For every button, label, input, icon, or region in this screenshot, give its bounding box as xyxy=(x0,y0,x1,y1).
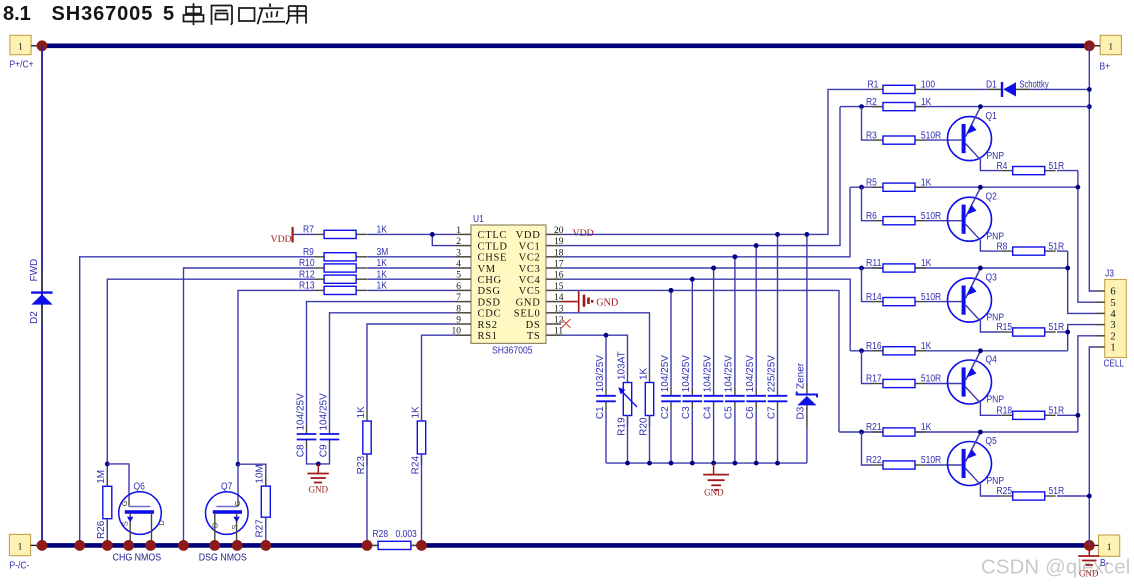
wire node to R26 xyxy=(106,464,108,486)
svg-text:104/25V: 104/25V xyxy=(295,393,306,431)
wire top bus P+/C+ to B+ xyxy=(42,43,1089,48)
svg-text:S: S xyxy=(230,524,239,529)
resistor R11 1K xyxy=(872,267,883,269)
svg-text:C5: C5 xyxy=(724,406,735,419)
IC U1 SH367005 body xyxy=(471,225,546,343)
svg-text:Q6: Q6 xyxy=(134,481,146,492)
svg-text:Zener: Zener xyxy=(795,362,806,389)
resistor R26 1M xyxy=(106,475,108,486)
svg-text:103AT: 103AT xyxy=(616,351,627,380)
capacitor C9 104/25V xyxy=(329,425,331,434)
svg-text:2: 2 xyxy=(456,237,461,247)
wire C5 to VC row xyxy=(734,257,736,387)
wire RS1 pin10 to R24 xyxy=(422,335,457,410)
node VC1 C6 junction xyxy=(754,243,759,248)
diode D1 Schottky xyxy=(988,88,1002,90)
wire R17 drop xyxy=(862,351,873,384)
node C8 C9 gnd junction xyxy=(316,462,321,467)
wire RS2 pin9 to R23 xyxy=(367,324,456,410)
wire emitter feed row Q4 xyxy=(850,350,1067,352)
svg-text:Q7: Q7 xyxy=(221,481,232,492)
connector J3 body xyxy=(1105,280,1127,358)
pin 9 RS2 xyxy=(456,323,471,325)
wire TS to C1 R19 xyxy=(561,335,628,371)
svg-text:1K: 1K xyxy=(921,177,932,188)
node tap5 R5 row junction xyxy=(1076,185,1081,190)
svg-text:R25: R25 xyxy=(997,486,1013,497)
wire CHSE R9 to bottom bus xyxy=(80,257,313,546)
svg-text:104/25V: 104/25V xyxy=(681,355,692,393)
pin 5 CHG xyxy=(456,278,471,280)
wire R10 to pin4 xyxy=(367,267,456,269)
node R3 tap junction xyxy=(859,104,864,109)
resistor R24 1K xyxy=(421,410,423,421)
transistor Q3 PNP xyxy=(948,278,992,322)
node B+ rail D1 junction xyxy=(1087,87,1092,92)
resistor R1 100 xyxy=(872,88,883,90)
pin J3-2 xyxy=(1095,335,1105,337)
svg-text:C2: C2 xyxy=(660,406,671,419)
svg-text:C3: C3 xyxy=(681,406,692,419)
svg-text:VC1: VC1 xyxy=(519,241,541,252)
resistor R2 1K xyxy=(872,106,883,108)
wire tap5 R4 to J3 pin5 xyxy=(1078,171,1095,303)
wire R23 to bus xyxy=(366,454,368,545)
svg-text:R26: R26 xyxy=(96,520,107,539)
diode D2 FWD xyxy=(41,270,43,293)
svg-text:1K: 1K xyxy=(921,422,932,433)
wire R14 to base xyxy=(926,301,962,303)
svg-text:104/25V: 104/25V xyxy=(724,355,735,393)
wire C7 to VC row xyxy=(777,234,779,386)
svg-text:TS: TS xyxy=(527,331,541,342)
wire R27 to bus xyxy=(265,517,267,545)
svg-text:R20: R20 xyxy=(638,417,649,436)
wire R8 output xyxy=(1057,250,1068,252)
pin 18 VC2 xyxy=(546,256,561,258)
svg-text:P-/C-: P-/C- xyxy=(10,561,30,572)
svg-text:R4: R4 xyxy=(997,161,1008,172)
svg-text:C9: C9 xyxy=(318,444,329,457)
terminal P+/C+ box xyxy=(10,35,31,54)
node C5 row junction xyxy=(733,254,738,259)
svg-text:CHG NMOS: CHG NMOS xyxy=(113,552,162,563)
wire tap3 R15 to J3 pin3 and R16 row xyxy=(1068,325,1095,351)
svg-text:S: S xyxy=(121,521,130,526)
ground GND below rail xyxy=(713,463,715,474)
no-connect X on pin 12 DS xyxy=(562,319,571,328)
svg-text:R3: R3 xyxy=(866,130,877,141)
svg-text:3: 3 xyxy=(456,248,461,258)
pin 7 DSD xyxy=(456,301,471,303)
resistor R7 1K xyxy=(313,233,324,235)
svg-text:R1: R1 xyxy=(868,80,879,91)
node R22 tap junction xyxy=(859,430,864,435)
svg-text:104/25V: 104/25V xyxy=(702,355,713,393)
wire Q3 collector to R15 xyxy=(966,305,1002,332)
svg-text:1: 1 xyxy=(18,543,23,553)
node VDD row D3 junction xyxy=(805,232,810,237)
pin 13 SEL0 xyxy=(546,312,561,314)
resistor R3 510R xyxy=(872,139,883,141)
svg-text:R6: R6 xyxy=(866,211,877,222)
svg-text:SH367005: SH367005 xyxy=(492,346,533,357)
svg-text:DSD: DSD xyxy=(478,297,501,308)
wire VDD row to R1 xyxy=(561,89,872,234)
node R14 tap junction xyxy=(859,266,864,271)
svg-text:C6: C6 xyxy=(745,406,756,419)
svg-text:VDD: VDD xyxy=(271,234,292,245)
svg-text:VC4: VC4 xyxy=(519,275,541,286)
node C6 row junction xyxy=(754,243,759,248)
wire C3 to VC row xyxy=(691,279,693,387)
svg-text:4: 4 xyxy=(1110,309,1116,320)
pin 19 VC1 xyxy=(546,245,561,247)
svg-text:5: 5 xyxy=(1110,298,1115,309)
svg-text:1M: 1M xyxy=(96,470,107,484)
capacitor C1 103/25V xyxy=(605,387,607,396)
svg-text:RS2: RS2 xyxy=(478,320,498,331)
transistor Q2 PNP xyxy=(948,197,992,241)
svg-text:1K: 1K xyxy=(921,258,932,269)
wire VC1 row to block1 feed xyxy=(561,107,840,246)
wire R13 to pin6 xyxy=(367,289,456,291)
svg-text:D: D xyxy=(211,522,220,528)
wire R7 to pin1 xyxy=(367,233,456,235)
pin 14 GND xyxy=(546,301,561,303)
svg-text:C8: C8 xyxy=(295,444,306,457)
wire R3 to base xyxy=(926,139,962,141)
svg-text:Q3: Q3 xyxy=(986,273,998,284)
pin J3-1 xyxy=(1095,346,1105,348)
wire emitter feed row Q5 xyxy=(839,431,1078,433)
node R17 tap junction xyxy=(859,348,864,353)
terminal P-/C- box xyxy=(9,534,30,555)
wire gate node to R27 xyxy=(238,464,266,486)
resistor R9 3M xyxy=(313,256,324,258)
pin J3-6 xyxy=(1095,290,1105,292)
svg-text:R17: R17 xyxy=(866,374,882,385)
resistor R15 51R xyxy=(1002,331,1013,333)
node tap3 R15 junction xyxy=(1065,330,1070,335)
wire VC2 row to block2 feed xyxy=(561,187,850,257)
node pin1 pin2 junction xyxy=(430,232,435,237)
wire R12 to pin5 xyxy=(367,278,456,280)
wire R22 to base xyxy=(926,464,962,466)
thermistor R19 103AT xyxy=(627,372,629,383)
svg-text:GND: GND xyxy=(596,297,618,308)
node VC2 C5 junction xyxy=(733,254,738,259)
svg-text:GND: GND xyxy=(516,297,541,308)
wire emitter feed row Q2 xyxy=(850,186,1078,188)
node Q4 emitter junction xyxy=(978,348,983,353)
svg-text:R21: R21 xyxy=(866,422,882,433)
svg-text:G: G xyxy=(233,500,242,506)
svg-text:VDD: VDD xyxy=(573,228,594,239)
svg-text:R5: R5 xyxy=(866,177,877,188)
svg-text:D3: D3 xyxy=(795,406,806,419)
wire R15 output xyxy=(1057,331,1068,333)
node Q1 emitter junction xyxy=(978,104,983,109)
wire P+ rail vertical through FWD diode xyxy=(41,46,43,546)
wire SEL0 to R20 xyxy=(561,313,650,372)
terminal B+ box xyxy=(1100,35,1121,54)
wire D1 to B+ rail xyxy=(1030,88,1089,90)
wire emitter feed row Q3 xyxy=(872,267,1068,269)
svg-text:R14: R14 xyxy=(866,292,882,303)
wire CDC pin8 to C9 xyxy=(330,313,457,425)
svg-text:8: 8 xyxy=(456,304,461,314)
wire Q5 collector to R25 xyxy=(966,469,1002,497)
pin 6 DSG xyxy=(456,289,471,291)
node Q5 emitter junction xyxy=(978,430,983,435)
wire bottom bus right segment xyxy=(422,543,1090,548)
svg-text:5: 5 xyxy=(163,3,174,25)
svg-text:CHG: CHG xyxy=(478,275,502,286)
pin 1 CTLC xyxy=(456,233,471,235)
node C1 TS junction xyxy=(604,333,609,338)
svg-text:B+: B+ xyxy=(1100,61,1111,72)
resistor R5 1K xyxy=(872,186,883,188)
wire Q2 collector to R8 xyxy=(966,224,1002,251)
resistor R6 510R xyxy=(872,220,883,222)
svg-text:R16: R16 xyxy=(866,341,882,352)
junction B+ top-right xyxy=(1084,40,1095,51)
wire emitter feed row Q1 xyxy=(840,106,1089,108)
svg-text:0.003: 0.003 xyxy=(396,529,418,540)
node VC5 C2 junction xyxy=(669,288,674,293)
svg-text:D: D xyxy=(157,520,166,526)
transistor Q6 CHG NMOS xyxy=(119,492,162,535)
wire junction to pin2 CTLD xyxy=(432,234,456,245)
pin 2 CTLD xyxy=(456,245,471,247)
wire R18 output xyxy=(1057,414,1078,416)
pin 16 VC4 xyxy=(546,278,561,280)
svg-text:CSDN @qlexcel: CSDN @qlexcel xyxy=(981,557,1130,579)
wire C8 C9 common xyxy=(307,449,330,464)
pin 12 DS xyxy=(546,323,561,325)
capacitor C2 104/25V xyxy=(670,387,672,396)
pin J3-5 xyxy=(1095,301,1105,303)
svg-text:SH367005: SH367005 xyxy=(52,3,154,25)
svg-text:R19: R19 xyxy=(616,417,627,436)
pin 20 VDD xyxy=(546,233,561,235)
node tap1 R25 junction xyxy=(1087,494,1092,499)
resistor R25 51R xyxy=(1002,495,1013,497)
wire VDD to R7 xyxy=(294,233,313,235)
svg-text:VM: VM xyxy=(478,264,496,275)
ground GND below C8 C9 xyxy=(317,464,319,473)
ground GND at B- xyxy=(1088,545,1090,555)
svg-text:P+/C+: P+/C+ xyxy=(10,60,34,71)
svg-text:3: 3 xyxy=(1110,320,1115,331)
capacitor C6 104/25V xyxy=(755,387,757,396)
svg-text:C1: C1 xyxy=(595,406,606,419)
svg-text:FWD: FWD xyxy=(29,259,40,282)
svg-text:1K: 1K xyxy=(410,406,421,419)
wire R24 to bus xyxy=(421,454,423,545)
wire C4 to VC row xyxy=(713,268,715,387)
resistor R23 1K xyxy=(366,410,368,421)
wire R22 drop xyxy=(862,432,873,465)
wire R17 to base xyxy=(926,383,962,385)
wire R9 to pin3 xyxy=(367,256,456,258)
svg-text:VDD: VDD xyxy=(516,230,541,241)
resistor R12 1K xyxy=(313,278,324,280)
svg-text:D2: D2 xyxy=(29,311,40,324)
svg-text:104/25V: 104/25V xyxy=(745,355,756,393)
svg-text:Q4: Q4 xyxy=(986,355,998,366)
wire to Q6 gate xyxy=(107,464,129,499)
wire tap2 R18 to J3 pin2 and R21 row xyxy=(1078,336,1095,432)
svg-text:R15: R15 xyxy=(997,322,1013,333)
wire to Q7 gate xyxy=(237,464,239,499)
wire tap4 R8 to J3 pin4 xyxy=(1068,251,1095,313)
node C3 row junction xyxy=(690,277,695,282)
svg-text:PNP: PNP xyxy=(987,395,1005,406)
svg-text:DSG NMOS: DSG NMOS xyxy=(199,552,247,563)
transistor Q4 PNP xyxy=(948,360,992,404)
svg-text:1K: 1K xyxy=(921,341,932,352)
svg-text:CDC: CDC xyxy=(478,309,502,320)
svg-text:DS: DS xyxy=(526,320,541,331)
wire VM R10 to bottom bus xyxy=(184,268,314,545)
svg-text:2: 2 xyxy=(1110,331,1115,342)
wire R1 to D1 xyxy=(926,88,988,90)
svg-text:1K: 1K xyxy=(356,406,367,419)
resistor R10 1K xyxy=(313,267,324,269)
wire ground rail under C1-C7 xyxy=(606,462,807,464)
svg-text:R23: R23 xyxy=(356,456,367,475)
node VC3 C4 junction xyxy=(711,266,716,271)
wire R14 drop xyxy=(862,268,873,302)
transistor Q1 PNP xyxy=(948,117,992,161)
svg-text:C7: C7 xyxy=(766,406,777,419)
wire R26 to bus xyxy=(106,519,108,546)
wire Q1 collector to R4 xyxy=(966,144,1002,171)
svg-text:GND: GND xyxy=(704,487,724,497)
svg-text:225/25V: 225/25V xyxy=(766,355,777,393)
capacitor C3 104/25V xyxy=(691,387,693,396)
title chinese glyphs xyxy=(184,3,307,25)
wire R25 output xyxy=(1057,495,1089,497)
wire CHG R12 down to R26 node xyxy=(107,279,313,464)
pin 4 VM xyxy=(456,267,471,269)
svg-text:103/25V: 103/25V xyxy=(595,355,606,393)
resistor R4 51R xyxy=(1002,170,1013,172)
capacitor C5 104/25V xyxy=(734,387,736,396)
svg-text:G: G xyxy=(120,500,129,506)
junction dots ground rail xyxy=(625,461,630,466)
svg-text:6: 6 xyxy=(456,282,461,292)
diode D3 Zener xyxy=(806,384,808,395)
svg-text:Q5: Q5 xyxy=(986,436,998,447)
svg-text:GND: GND xyxy=(309,485,329,495)
pin J3-4 xyxy=(1095,312,1105,314)
svg-text:1: 1 xyxy=(1110,343,1115,354)
resistor R27 10M xyxy=(265,475,267,486)
svg-text:R7: R7 xyxy=(303,225,314,236)
wire R4 output xyxy=(1057,170,1078,172)
wire C2 to VC row xyxy=(670,290,672,386)
node R27 Q7 gate junction xyxy=(236,462,241,467)
svg-text:C4: C4 xyxy=(702,406,713,419)
node Q3 emitter junction xyxy=(978,266,983,271)
pin 8 CDC xyxy=(456,312,471,314)
capacitor C7 225/25V xyxy=(777,387,779,396)
svg-text:CHSE: CHSE xyxy=(478,253,508,264)
svg-text:10M: 10M xyxy=(255,464,266,483)
wire R6 to base xyxy=(926,220,962,222)
svg-text:VC2: VC2 xyxy=(519,253,541,264)
svg-text:1K: 1K xyxy=(638,367,649,380)
svg-text:R22: R22 xyxy=(866,455,882,466)
wire C6 to VC row xyxy=(755,246,757,387)
svg-text:1: 1 xyxy=(456,226,461,236)
svg-text:1: 1 xyxy=(18,42,23,52)
node B+ rail R2 row junction xyxy=(1087,104,1092,109)
wire D3 to VDD row xyxy=(806,234,808,383)
node R6 tap junction xyxy=(859,185,864,190)
resistor R18 51R xyxy=(1002,414,1013,416)
svg-text:R27: R27 xyxy=(255,519,266,538)
pin 11 TS xyxy=(546,334,561,336)
svg-text:R8: R8 xyxy=(997,241,1008,252)
svg-text:R24: R24 xyxy=(410,456,421,475)
resistor R14 510R xyxy=(872,301,883,303)
node C2 row junction xyxy=(669,288,674,293)
resistor R17 510R xyxy=(872,383,883,385)
transistor Q5 PNP xyxy=(948,442,992,486)
wire DSG R13 down to Q7 gate node xyxy=(238,290,313,464)
power ground GND at pin14 xyxy=(561,301,578,303)
node C7 row junction xyxy=(775,232,780,237)
pin 15 VC5 xyxy=(546,289,561,291)
wire VC3 row to R11 xyxy=(561,267,872,269)
junction B- bottom right xyxy=(1084,540,1095,551)
svg-text:104/25V: 104/25V xyxy=(318,393,329,431)
svg-text:7: 7 xyxy=(456,293,461,303)
node VDD row C7 junction xyxy=(775,232,780,237)
wire C1 top xyxy=(605,335,607,387)
svg-text:VC5: VC5 xyxy=(519,286,541,297)
resistor R21 1K xyxy=(872,431,883,433)
svg-text:D1: D1 xyxy=(986,80,997,91)
svg-text:R11: R11 xyxy=(866,258,882,269)
node VC4 C3 junction xyxy=(690,277,695,282)
junction dots bottom bus xyxy=(37,540,48,551)
resistor R8 51R xyxy=(1002,250,1013,252)
svg-text:U1: U1 xyxy=(473,214,484,225)
node tap4 R11 row junction xyxy=(1065,266,1070,271)
svg-text:1: 1 xyxy=(1107,543,1112,553)
resistor R28 0.003 sense xyxy=(367,544,378,546)
svg-text:SEL0: SEL0 xyxy=(514,309,541,320)
svg-text:DSG: DSG xyxy=(478,286,501,297)
svg-text:R18: R18 xyxy=(997,406,1013,417)
svg-text:Q2: Q2 xyxy=(986,192,997,203)
svg-text:CTLD: CTLD xyxy=(478,241,508,252)
resistor R20 1K xyxy=(649,372,651,383)
svg-text:CELL: CELL xyxy=(1104,358,1125,369)
svg-text:5: 5 xyxy=(456,271,461,281)
wire DSD pin7 to C8 xyxy=(307,302,457,425)
svg-text:1K: 1K xyxy=(921,97,932,108)
svg-text:R28: R28 xyxy=(373,529,389,540)
svg-text:4: 4 xyxy=(456,260,461,270)
svg-text:Q1: Q1 xyxy=(986,111,997,122)
node C4 row junction xyxy=(711,266,716,271)
